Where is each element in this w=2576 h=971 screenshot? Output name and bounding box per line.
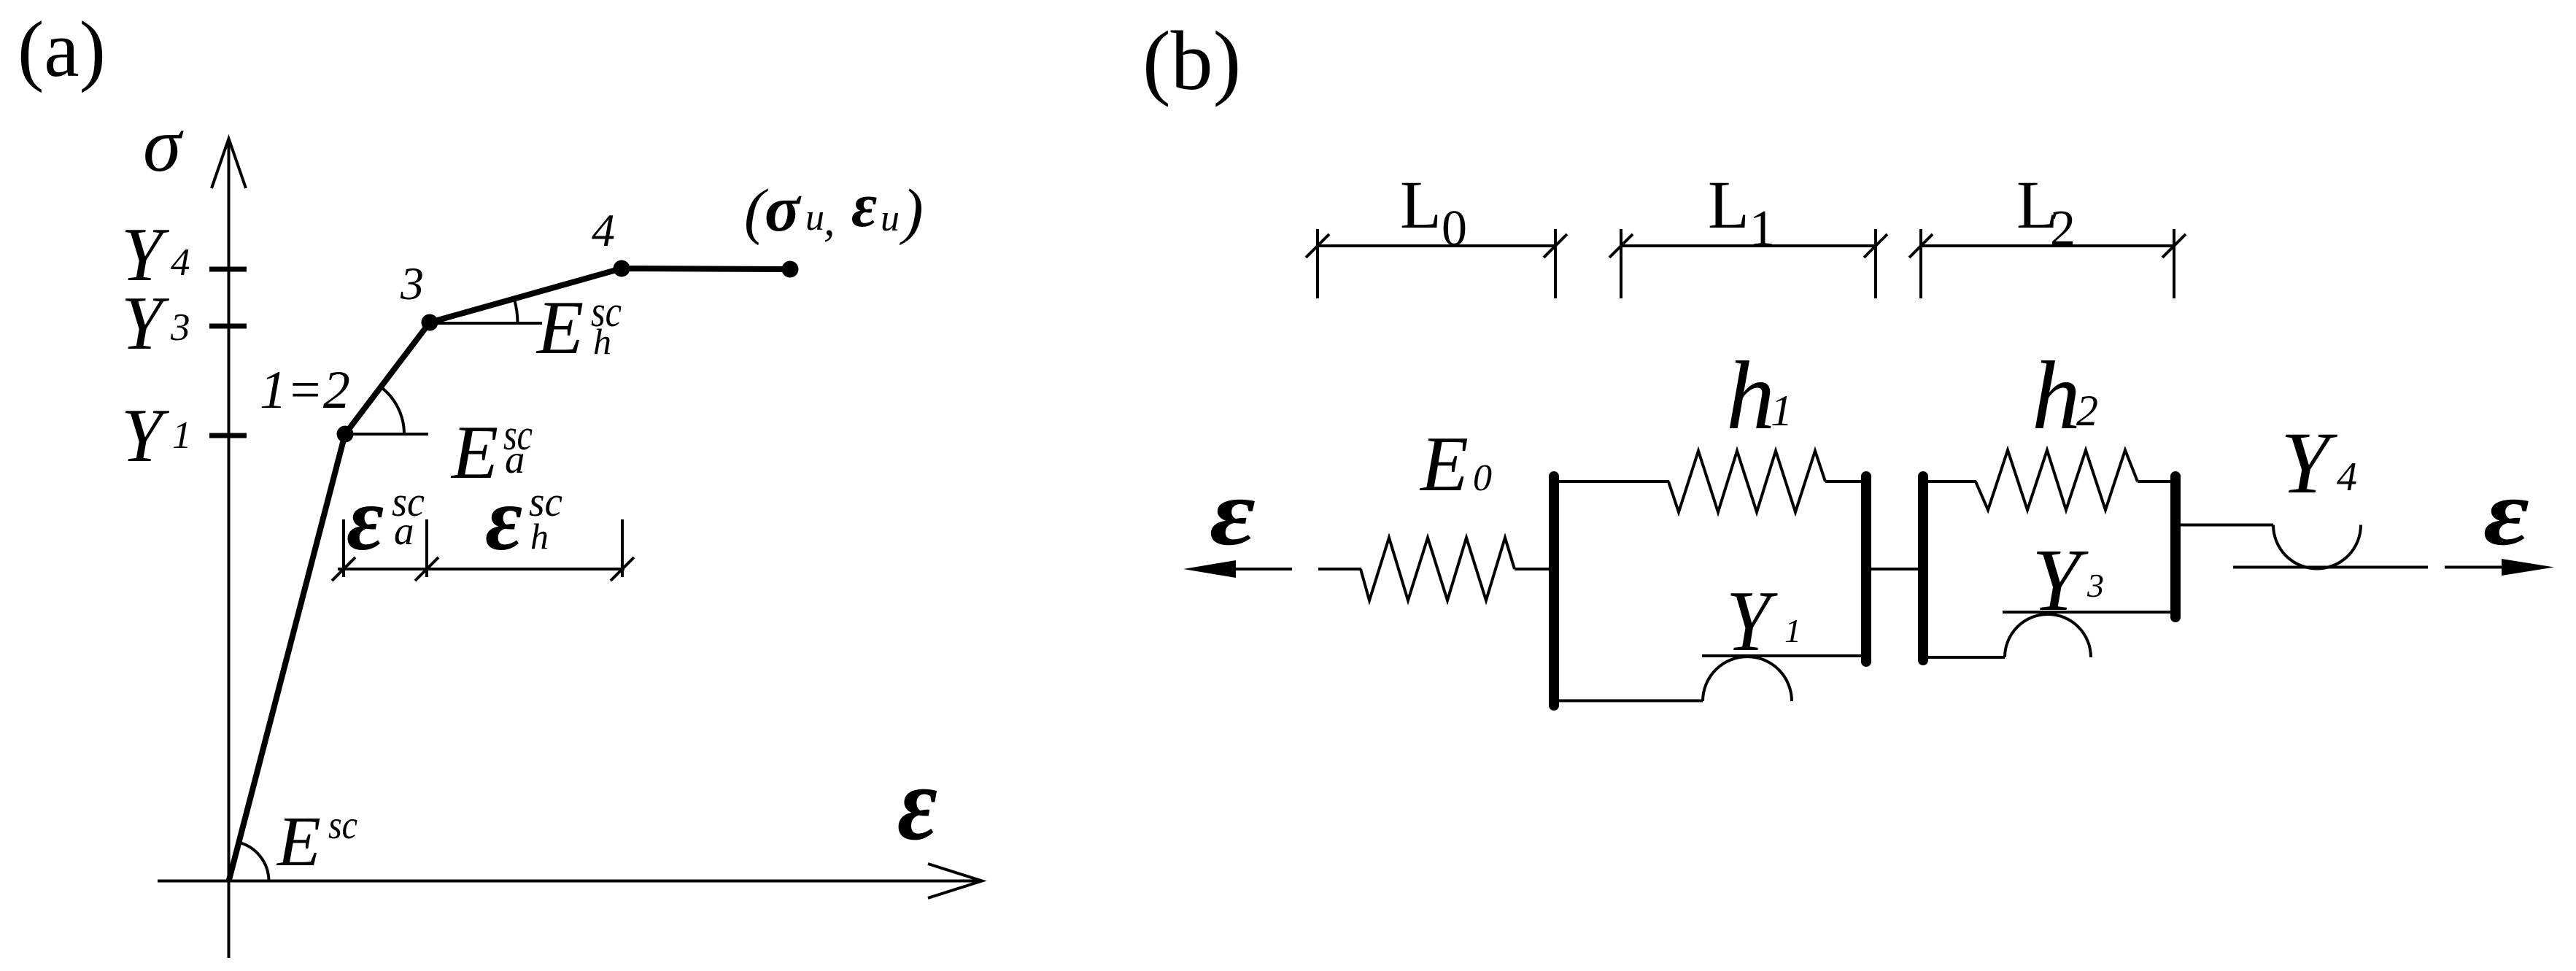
svg-text:(b): (b)	[1142, 15, 1241, 108]
svg-text:Y: Y	[121, 280, 169, 365]
Y3 bottom wire	[1926, 656, 2005, 659]
bar3 (left clamp of h2/Y3 group)	[1918, 476, 1928, 660]
Y1 slider plate	[1702, 654, 1863, 657]
svg-text:Y: Y	[121, 392, 169, 478]
svg-text:E: E	[276, 802, 321, 881]
angle arc at point 1=2	[381, 387, 404, 435]
angle reference line at point 1=2	[345, 433, 428, 436]
wire h2 to bar4	[2138, 480, 2174, 483]
wire spring E0 to bar1	[1515, 568, 1551, 570]
svg-text:4: 4	[171, 241, 190, 284]
Y1 bottom wire	[1557, 700, 1703, 703]
wire bar4 to Y4 slider	[2178, 524, 2273, 527]
angle reference line at point 3	[430, 322, 543, 325]
svg-text:h: h	[2032, 341, 2081, 449]
svg-text:h: h	[530, 516, 549, 557]
Y1 slider dome	[1703, 657, 1792, 701]
svg-text:2: 2	[2076, 387, 2098, 435]
x-axis (strain axis)	[158, 880, 979, 883]
svg-text:4: 4	[2337, 454, 2357, 500]
svg-text:ε: ε	[851, 170, 877, 240]
svg-text:sc: sc	[328, 802, 357, 847]
svg-text:0: 0	[1473, 457, 1492, 499]
wire h1 to bar2	[1825, 480, 1865, 483]
L1 left slash	[1609, 234, 1633, 258]
svg-text:1: 1	[1749, 201, 1775, 257]
svg-text:1: 1	[1784, 612, 1801, 649]
L2 left slash	[1909, 234, 1933, 258]
svg-text:): )	[899, 176, 924, 246]
L2 left tick	[1919, 229, 1922, 298]
L2 right tick	[2173, 229, 2175, 298]
bar4 (right clamp of h2/Y3 group)	[2170, 476, 2181, 617]
L2 right slash	[2162, 234, 2186, 258]
dim tick at x of point 4	[621, 519, 624, 577]
svg-text:E: E	[535, 285, 584, 370]
angle arc at point 3	[514, 300, 518, 324]
spring h1	[1668, 451, 1825, 512]
svg-text:4: 4	[592, 204, 615, 256]
svg-text:Y: Y	[1726, 573, 1778, 669]
spring h2	[1976, 450, 2138, 510]
Y3 slider plate	[2003, 611, 2173, 614]
dim tick at x of point 1=2	[342, 519, 345, 577]
svg-text:,: ,	[824, 196, 835, 245]
svg-text:u: u	[881, 198, 900, 239]
dim slash 3	[611, 557, 634, 581]
y-axis (stress axis)	[228, 143, 231, 958]
svg-text:L: L	[1708, 168, 1749, 243]
L1 right slash	[1864, 234, 1887, 258]
angle arc at origin	[239, 843, 268, 881]
bar2 (right clamp of h1/Y1 group)	[1861, 476, 1871, 662]
tick Y4	[209, 267, 247, 272]
svg-text:h: h	[1726, 341, 1775, 449]
svg-text:σ: σ	[765, 173, 802, 245]
svg-text:Y: Y	[2281, 414, 2338, 512]
dimension line L0	[1318, 244, 1555, 247]
svg-text:ε: ε	[897, 746, 937, 862]
node dot (sigma_u, eps_u)	[782, 261, 799, 278]
svg-text:E: E	[1419, 421, 1469, 508]
dimension line L2	[1921, 244, 2174, 247]
x-axis arrowhead	[928, 864, 982, 898]
link wire bar2 to bar3	[1869, 568, 1920, 570]
svg-text:1: 1	[1771, 387, 1792, 435]
wire to E0 spring	[1318, 568, 1361, 570]
svg-text:3: 3	[2086, 567, 2104, 604]
right strain arrow	[2445, 566, 2507, 569]
Y4 slider dome (inverted)	[2273, 525, 2361, 569]
node dot 3	[422, 314, 438, 331]
svg-text:ε: ε	[1210, 460, 1256, 565]
svg-text:3: 3	[170, 306, 190, 349]
L0 right tick	[1554, 229, 1557, 298]
node dot 4	[614, 260, 630, 277]
svg-text:ε: ε	[347, 469, 384, 570]
tick Y1	[209, 433, 247, 438]
L1 left tick	[1620, 229, 1622, 298]
L0 right slash	[1544, 234, 1567, 258]
node dot 1=2	[337, 426, 354, 443]
left strain arrow	[1226, 568, 1292, 570]
L0 left tick	[1316, 229, 1319, 298]
svg-text:Y: Y	[2032, 531, 2089, 630]
stress-strain curve	[229, 268, 791, 881]
Y4 slider plate	[2233, 566, 2428, 569]
tick Y3	[209, 324, 247, 329]
dim slash 2	[415, 557, 438, 581]
y-axis arrowhead	[212, 139, 246, 188]
dim slash 1	[332, 557, 355, 581]
dim tick at x of point 3	[425, 519, 428, 577]
L0 left slash	[1306, 234, 1329, 258]
Y3 slider dome	[2005, 614, 2091, 657]
svg-text:(a): (a)	[18, 5, 106, 93]
strain dimension line	[338, 568, 624, 570]
h2 top branch wire	[1926, 480, 1976, 483]
svg-text:a: a	[394, 508, 414, 553]
svg-text:3: 3	[400, 258, 424, 309]
svg-text:ε: ε	[2483, 460, 2529, 565]
spring E0	[1361, 538, 1515, 600]
svg-text:L: L	[1400, 168, 1442, 243]
svg-text:h: h	[593, 321, 611, 362]
svg-text:1=2: 1=2	[260, 360, 350, 420]
svg-text:0: 0	[1442, 201, 1467, 257]
svg-text:σ: σ	[143, 102, 184, 187]
svg-text:ε: ε	[485, 469, 522, 570]
dimension line L1	[1621, 244, 1876, 247]
svg-text:2: 2	[2050, 201, 2076, 257]
h1 top branch wire	[1557, 480, 1669, 483]
bar1 (left clamp of h1/Y1 group)	[1549, 476, 1559, 705]
L1 right tick	[1874, 229, 1877, 298]
svg-text:u: u	[805, 197, 824, 239]
svg-text:1: 1	[172, 414, 192, 457]
